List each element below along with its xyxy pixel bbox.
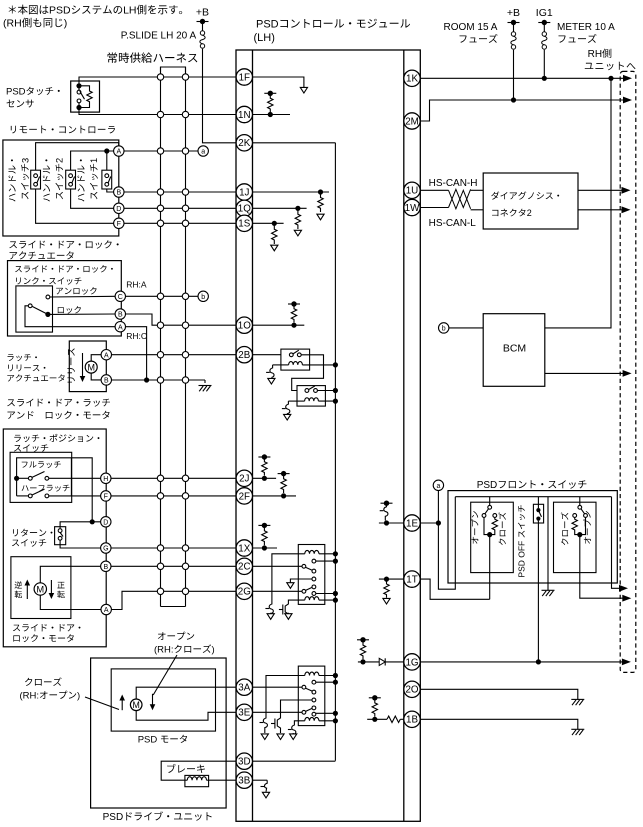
note line2 xyxy=(3,18,67,30)
connector F latch xyxy=(101,491,111,501)
svg-text:RH:A: RH:A xyxy=(126,280,147,290)
pin 1E xyxy=(404,515,420,531)
harness bottom U xyxy=(161,606,186,608)
junction 1E xyxy=(384,520,389,525)
arrow 1G xyxy=(622,659,631,666)
junction 1J xyxy=(318,189,323,194)
pin 1G xyxy=(404,654,420,670)
wire relay1 out xyxy=(292,355,324,391)
arrow 1T xyxy=(383,598,390,604)
cluster2 coil1 lead r xyxy=(319,553,336,555)
label PSD touch sensor l1 xyxy=(6,87,60,98)
cluster3 sw1 xyxy=(302,685,316,694)
harness joint 2F a xyxy=(157,493,163,499)
connector F remote xyxy=(114,218,124,228)
junction rail r2coil xyxy=(333,399,338,404)
label lock motor l2 xyxy=(13,634,73,642)
label HS-CAN-L xyxy=(429,218,477,229)
driver c3 coil1 xyxy=(260,715,269,740)
harness joint 1N b xyxy=(182,111,188,117)
label seiten xyxy=(57,582,64,598)
svg-text:IG1: IG1 xyxy=(536,7,553,19)
svg-text:(LH): (LH) xyxy=(254,32,275,44)
resistor 1N pullup xyxy=(268,96,273,113)
front switch box xyxy=(448,491,617,583)
link unlock contact xyxy=(46,295,50,299)
right rocker open wire xyxy=(580,517,586,534)
touch sensor bottom junction xyxy=(76,105,81,110)
junction 1G off xyxy=(536,659,541,664)
harness joint 2C b xyxy=(182,563,188,569)
label ROOM fuse l2 xyxy=(460,34,498,43)
link switch inner box xyxy=(16,286,53,332)
relay1 box xyxy=(281,349,310,370)
motor M lock xyxy=(34,583,46,595)
wire 1W out xyxy=(420,207,448,209)
pin 1W xyxy=(404,199,420,215)
wire relay2 coil drv xyxy=(288,400,297,402)
wire 1J row xyxy=(124,191,236,193)
svg-text:2O: 2O xyxy=(405,685,418,696)
resistor 1J xyxy=(318,194,323,212)
svg-text:3B: 3B xyxy=(238,776,250,787)
pin 2K xyxy=(236,135,252,151)
svg-text:HS-CAN-H: HS-CAN-H xyxy=(429,178,478,189)
full latch switch xyxy=(14,472,101,481)
label open l2 xyxy=(154,644,215,655)
svg-text:P.SLIDE LH 20 A: P.SLIDE LH 20 A xyxy=(121,31,197,42)
fuse label P.SLIDE xyxy=(121,31,197,42)
connector B remote xyxy=(114,187,124,197)
arrow 1K xyxy=(623,75,632,82)
node b right xyxy=(439,323,449,333)
latch switch inner box right edge xyxy=(70,458,72,497)
relay2 contact xyxy=(305,386,317,393)
svg-text:a: a xyxy=(436,483,440,490)
touch sensor resistor xyxy=(79,86,92,108)
arrow 1S xyxy=(271,245,278,251)
left rocker close resistor xyxy=(492,517,497,532)
pin 1X xyxy=(236,540,252,556)
harness joint gnd b xyxy=(182,377,188,383)
cluster2 coil1 xyxy=(305,550,319,553)
harness joint 2J a xyxy=(157,475,163,481)
wire 1G internal xyxy=(358,661,404,663)
svg-text:LH: LH xyxy=(123,5,136,17)
left rocker top stem xyxy=(489,497,491,506)
svg-text:a: a xyxy=(201,149,205,156)
right rocker close resistor xyxy=(572,517,577,532)
label full latch xyxy=(22,461,61,468)
wire c3 sw1 upper xyxy=(316,681,336,683)
label latch release l3 xyxy=(7,374,64,381)
link lock contact xyxy=(45,312,50,317)
cluster3 coil2 lead r xyxy=(319,720,336,722)
junction a 1E xyxy=(436,520,441,525)
harness joint 1O b xyxy=(182,322,188,328)
label link switch l2 xyxy=(16,277,81,284)
cluster3 coil1 xyxy=(305,672,319,675)
junction 1K meter xyxy=(542,76,547,81)
label slide door lock actuator l1 xyxy=(9,240,118,248)
harness joint b2 xyxy=(182,293,188,299)
label jyouji harness xyxy=(108,52,198,63)
label PSD front switch xyxy=(477,480,587,491)
left rocker box xyxy=(471,502,514,572)
supply tick 1X xyxy=(258,523,270,528)
label PSD motor xyxy=(138,735,187,746)
svg-text:+B: +B xyxy=(507,7,520,19)
arrow 1J xyxy=(317,214,324,220)
wire motor to latch B xyxy=(91,373,101,380)
harness joint 1Q b xyxy=(182,205,188,211)
cluster3 sw1 upper contact xyxy=(312,680,316,684)
reverse arrow xyxy=(25,580,31,600)
wire 1N internal xyxy=(253,114,291,116)
wire return to G xyxy=(60,540,101,548)
svg-text:): ) xyxy=(77,691,80,702)
svg-text:2K: 2K xyxy=(238,138,250,149)
supply tick 1G xyxy=(357,637,369,642)
label open left xyxy=(471,511,478,544)
wire relay2 out xyxy=(317,390,335,392)
pin 3E xyxy=(236,704,252,720)
release arrow xyxy=(80,353,86,382)
left rocker close wire xyxy=(490,532,495,535)
wire sw1 top stub xyxy=(106,151,108,170)
svg-text:1E: 1E xyxy=(406,518,418,529)
front bus xyxy=(455,496,611,498)
wire 2G internal xyxy=(253,590,303,592)
cluster3 coil2 xyxy=(305,717,319,720)
right rocker close contact xyxy=(573,514,577,518)
svg-text:PSD: PSD xyxy=(6,87,26,98)
connector H xyxy=(101,473,111,483)
connector G latch xyxy=(101,543,111,553)
wire b-row xyxy=(126,295,199,297)
brake coil leads xyxy=(185,779,209,781)
connector B lockmotor xyxy=(101,561,111,571)
wire 2M row xyxy=(420,100,627,121)
relay2 box xyxy=(297,386,325,407)
left rocker lever xyxy=(485,509,489,514)
junction 1T xyxy=(384,577,389,582)
cluster3 coil1 lead l xyxy=(266,676,305,716)
off switch contacts xyxy=(536,508,541,521)
driver 1E xyxy=(380,503,388,520)
wire motor to 3E xyxy=(136,711,236,721)
wire sw1 bottom to B xyxy=(107,189,114,192)
label remote controller xyxy=(11,126,115,134)
latch lock motor assembly box xyxy=(3,429,106,647)
svg-text:PSD: PSD xyxy=(138,735,158,746)
arrow BCM xyxy=(623,370,632,377)
svg-text:M: M xyxy=(133,700,140,710)
off switch box xyxy=(533,504,543,523)
wire motor bottom to A xyxy=(40,595,101,609)
wire c2 sw2 out xyxy=(316,593,336,595)
svg-text:1T: 1T xyxy=(406,575,417,586)
cluster2 box xyxy=(298,545,325,605)
label latch position switch l1 xyxy=(14,434,99,442)
wire 1F row left xyxy=(79,77,236,86)
left rocker rail xyxy=(489,535,491,600)
wire unlock to C xyxy=(50,295,115,298)
resistor 1X pullup xyxy=(262,527,267,545)
svg-text:1B: 1B xyxy=(406,715,418,726)
svg-text:b: b xyxy=(442,326,446,333)
harness joint 1J a xyxy=(157,189,163,195)
wire diag out 1 xyxy=(578,189,626,191)
svg-text:2J: 2J xyxy=(239,474,249,485)
label diagnosis l2 xyxy=(492,208,532,218)
PSD control module box xyxy=(236,50,420,821)
latch position switch box xyxy=(10,452,72,502)
wire 1Q row xyxy=(124,207,236,209)
motor M latch release xyxy=(85,361,97,373)
close leader line xyxy=(85,697,119,710)
label PSD OFF switch xyxy=(517,505,527,577)
junction rail r2sw xyxy=(333,388,338,393)
wire 2B row left xyxy=(112,354,237,356)
resistor 2F pullup xyxy=(281,476,286,493)
wire 1Q internal xyxy=(253,207,307,209)
svg-text:ROOM 15 A: ROOM 15 A xyxy=(444,22,498,33)
svg-text:G: G xyxy=(103,546,108,553)
junction 2M room xyxy=(511,97,516,102)
resistor 1B series xyxy=(387,716,400,722)
svg-text:1W: 1W xyxy=(405,203,420,214)
harness joint 1Q a xyxy=(157,205,163,211)
harness joint 1S b xyxy=(182,220,188,226)
open arrow sym xyxy=(150,694,156,710)
wire relay1 coil drv xyxy=(273,364,281,366)
connector B link xyxy=(115,309,125,319)
label link switch l1 xyxy=(15,265,113,272)
cluster2 coil2 lead l xyxy=(288,599,304,602)
label gyakuten xyxy=(15,581,23,598)
wire 1K row xyxy=(420,77,627,79)
supply tick 1B xyxy=(369,695,381,700)
label BCM xyxy=(503,343,526,355)
label lock motor l1 xyxy=(13,624,81,631)
junction rail c3sw1 xyxy=(333,680,338,685)
harness joint 2G b xyxy=(182,588,188,594)
cluster2 coil2 xyxy=(305,597,319,600)
handle switch 3 label xyxy=(8,158,30,202)
wire 1T path xyxy=(420,579,489,599)
resistor 1B pullup xyxy=(372,700,377,717)
cluster2 sw1 upper contact xyxy=(312,559,316,563)
svg-text:PSD OFF: PSD OFF xyxy=(517,541,527,578)
harness joint 2B b xyxy=(182,352,188,358)
svg-text:(RH:: (RH: xyxy=(20,691,40,702)
wire 1E internal xyxy=(379,522,404,524)
arrow 1F internal xyxy=(300,87,307,93)
svg-text:RH:C: RH:C xyxy=(126,331,147,341)
svg-text:METER 10 A: METER 10 A xyxy=(557,22,615,33)
svg-text:): ) xyxy=(64,18,67,30)
driver c2 coil1 xyxy=(265,601,274,619)
wire D row xyxy=(60,522,101,528)
svg-text:D: D xyxy=(116,206,121,213)
harness joint 1S a xyxy=(157,220,163,226)
driver c2 coil2 xyxy=(279,601,292,619)
pin 1N xyxy=(236,106,252,122)
resistor 1G pullup xyxy=(360,642,365,659)
right rocker box xyxy=(554,502,597,572)
resistor 1O pullup xyxy=(291,306,296,323)
off switch top stem xyxy=(537,497,539,508)
harness joint 1J b xyxy=(182,189,188,195)
left rocker common dot xyxy=(487,532,492,537)
wire 3D row xyxy=(161,761,236,780)
junction rail c3coil2 xyxy=(333,718,338,723)
svg-text:M: M xyxy=(87,363,95,373)
label return switch l1 xyxy=(13,529,53,537)
svg-text:D: D xyxy=(103,520,108,527)
svg-text:b: b xyxy=(201,294,205,301)
junction 1X xyxy=(262,545,267,550)
svg-text:1U: 1U xyxy=(406,186,419,197)
pin 2G xyxy=(236,583,252,599)
node a right xyxy=(433,480,443,490)
arrow diag 1 xyxy=(622,187,631,194)
svg-text:+B: +B xyxy=(196,7,209,19)
wire ROOM fuse down xyxy=(513,50,515,100)
pin 1F xyxy=(236,69,252,85)
junction 1S xyxy=(272,221,277,226)
wire a-row xyxy=(124,150,198,152)
connector A latch xyxy=(101,350,111,360)
return switch box xyxy=(55,527,66,545)
junction sw1 top xyxy=(104,148,109,153)
wire 1N row left xyxy=(79,108,236,115)
junction latch D xyxy=(90,519,95,524)
svg-text:(RH:: (RH: xyxy=(154,645,174,656)
link common wire xyxy=(25,306,115,327)
svg-text:3: 3 xyxy=(20,158,30,163)
cluster2 coil1 lead l xyxy=(272,554,305,601)
wire 1X internal xyxy=(253,547,278,549)
resistor 1Q xyxy=(295,211,300,230)
pin 2M xyxy=(404,113,420,129)
label unlock xyxy=(56,287,96,294)
junction 1B xyxy=(372,717,377,722)
svg-text:RH: RH xyxy=(588,49,602,60)
diagnosis connector box xyxy=(483,173,578,229)
harness joint 2J b xyxy=(182,475,188,481)
arrow c2 mid xyxy=(287,583,294,589)
junction rail c2coil2 xyxy=(333,598,338,603)
svg-text:F: F xyxy=(104,494,108,501)
junction rail c2coil1 xyxy=(333,551,338,556)
cluster2 mid contact xyxy=(312,577,316,581)
label latch release l2 xyxy=(8,365,45,372)
pin 3A xyxy=(236,679,252,695)
node a left xyxy=(198,146,208,156)
svg-text:3A: 3A xyxy=(238,683,250,694)
driver 3B xyxy=(261,780,270,798)
junction 1O xyxy=(291,323,296,328)
resistor 1S xyxy=(272,226,277,245)
arrow 2M xyxy=(623,97,632,104)
left rocker open wire xyxy=(484,517,490,534)
wire METER fuse down xyxy=(543,50,545,79)
wire 1E row right xyxy=(420,522,438,524)
wire 2F row left xyxy=(111,495,236,497)
diode 1G xyxy=(379,658,385,665)
left rocker close contact xyxy=(493,514,497,518)
link pivot contact xyxy=(28,304,32,308)
left connector strip line xyxy=(252,50,254,821)
svg-text:2M: 2M xyxy=(405,116,419,127)
handle switch 3 box xyxy=(31,170,41,189)
svg-text:2F: 2F xyxy=(239,491,250,502)
wire +B to 2K xyxy=(203,49,237,143)
remote controller box xyxy=(3,140,119,236)
wire 2B internal xyxy=(253,354,282,356)
touch sensor switch xyxy=(77,88,84,106)
junction rail c3sw2 xyxy=(333,711,338,716)
wire BCM out xyxy=(545,372,627,374)
wire 2C internal xyxy=(253,565,303,567)
ground front switch xyxy=(542,590,555,596)
svg-text:1F: 1F xyxy=(239,72,250,83)
supply tick 1O xyxy=(288,301,300,306)
PSD touch sensor box xyxy=(71,81,100,112)
pin 2J xyxy=(236,470,252,486)
wire 1T internal xyxy=(379,578,404,580)
IG1 label xyxy=(536,7,553,19)
harness joint a1 xyxy=(157,148,163,154)
wire 3B internal xyxy=(253,779,268,781)
ground harness row xyxy=(199,380,212,391)
wire sw3 top xyxy=(36,143,119,171)
svg-text:A: A xyxy=(104,352,109,359)
arrow bus RH xyxy=(619,585,628,592)
right rocker common contact xyxy=(578,505,582,509)
handle switch 2 box xyxy=(66,170,76,189)
wire a drop xyxy=(438,491,455,590)
right rocker top stem xyxy=(579,497,581,506)
+B label left xyxy=(196,7,209,19)
forward arrow xyxy=(49,580,55,599)
junction rail c3coil1 xyxy=(333,673,338,678)
label return switch l2 xyxy=(12,539,46,547)
pin 1K xyxy=(404,70,420,86)
svg-text:BCM: BCM xyxy=(503,343,526,355)
front gnd wire xyxy=(547,497,549,591)
relay1 coil lead r xyxy=(302,364,335,366)
harness line 1 xyxy=(160,67,162,607)
wire lock to B xyxy=(50,313,115,315)
harness joint 1F a xyxy=(157,74,163,80)
wire 1B row xyxy=(420,719,578,729)
wire sw3 bottom to F xyxy=(36,189,114,223)
left rocker common contact xyxy=(488,505,492,509)
pin 3D xyxy=(236,753,252,769)
wire A to gnd row xyxy=(126,327,147,380)
cluster2 coil2 lead r xyxy=(319,599,336,601)
pin 1U xyxy=(404,182,420,198)
wire 1U out xyxy=(420,189,448,191)
cluster3 coil2 lead l xyxy=(294,721,304,722)
svg-text:B: B xyxy=(118,312,123,319)
BCM box xyxy=(483,314,545,387)
junction 1G xyxy=(360,659,365,664)
label latch position switch l2 xyxy=(14,444,48,452)
